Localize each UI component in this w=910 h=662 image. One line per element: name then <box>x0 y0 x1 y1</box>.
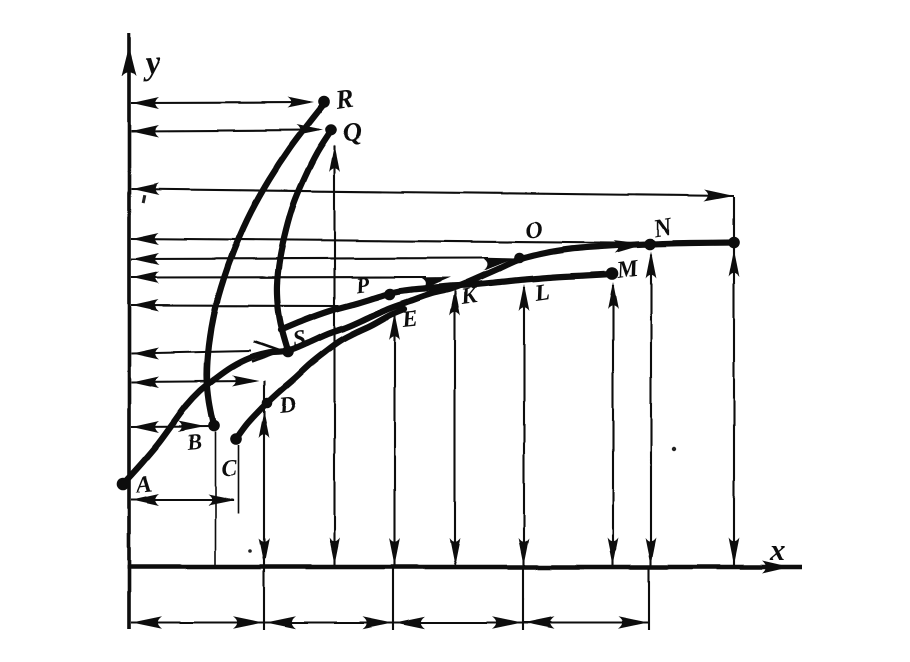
left arrowhead C dim <box>132 494 159 506</box>
left arrowhead N line <box>132 233 159 245</box>
ink speck right middle <box>672 447 676 451</box>
open arrowhead into S <box>252 342 281 363</box>
ink speck near axis top <box>141 195 146 203</box>
projection line for N <box>131 239 616 244</box>
svg-text:R: R <box>333 83 356 115</box>
extension below axis at L <box>522 567 524 630</box>
point dot R <box>318 96 330 108</box>
bottom dim right arrowhead at N extension <box>618 616 648 628</box>
y-axis arrowhead <box>122 46 137 76</box>
bottom dim left arrowhead from L extension <box>525 616 555 628</box>
svg-text:D: D <box>277 391 298 418</box>
ink speck above x-axis <box>248 549 252 553</box>
steep curve S-Q <box>277 131 331 351</box>
bottom dim left arrowhead at y-axis <box>132 616 162 628</box>
point dot Q <box>325 124 337 136</box>
bottom dimension line <box>131 622 649 624</box>
left arrowhead R line <box>132 97 159 109</box>
down arrowhead at axis under L <box>519 538 530 565</box>
vertical line at right end <box>733 197 735 567</box>
vertical line under M <box>612 285 614 567</box>
right arrowhead C dim <box>208 495 235 506</box>
svg-text:L: L <box>532 279 551 307</box>
svg-text:C: C <box>221 455 239 481</box>
projection line for K <box>131 276 426 279</box>
projection line for R <box>131 101 310 104</box>
point dot right end of curve <box>728 237 740 249</box>
left arrowhead K line <box>132 272 159 284</box>
down arrowhead at axis under M <box>608 538 619 565</box>
left arrowhead D line <box>132 376 159 388</box>
svg-text:M: M <box>614 255 641 284</box>
svg-text:P: P <box>353 271 371 298</box>
svg-text:O: O <box>523 217 544 245</box>
vertical line under D <box>263 381 265 567</box>
projection line for E <box>131 304 342 307</box>
right arrowhead D line <box>232 376 259 387</box>
extension below axis at D <box>263 567 265 630</box>
up arrowhead under N <box>646 251 657 278</box>
down arrowhead at axis under Q <box>329 538 340 565</box>
right arrowhead Q line <box>296 125 323 136</box>
left arrowhead S line <box>132 348 159 360</box>
arrowhead into K <box>420 277 451 289</box>
main curve A-S-E-K-O-N <box>123 243 734 485</box>
point dot N <box>644 238 656 250</box>
bottom dim left arrowhead from D extension <box>266 616 296 628</box>
point dot P <box>384 288 396 300</box>
vertical line under C <box>238 445 240 513</box>
svg-text:B: B <box>185 429 203 456</box>
y-axis <box>127 33 131 629</box>
vertical line under Q <box>333 146 335 567</box>
down arrowhead at axis right end <box>729 538 740 565</box>
vertical line under K <box>454 291 456 567</box>
svg-text:E: E <box>400 306 419 333</box>
vertical line under N <box>650 254 652 567</box>
up arrowhead under M <box>608 282 619 309</box>
left arrowhead B line <box>132 421 159 433</box>
svg-text:Q: Q <box>341 116 364 148</box>
svg-text:y: y <box>140 44 163 82</box>
point dot A <box>117 478 130 491</box>
right arrowhead long line <box>704 190 734 202</box>
left arrowhead E line <box>132 300 159 312</box>
point dot B <box>208 420 220 432</box>
up arrowhead under K <box>450 289 461 316</box>
point dot O <box>514 253 525 264</box>
dimension line for C abscissa <box>131 499 234 501</box>
bottom dim left arrowhead from E extension <box>395 616 425 628</box>
down arrowhead at axis under E <box>389 538 400 565</box>
up arrowhead under E <box>389 313 400 340</box>
svg-text:N: N <box>650 213 674 243</box>
top long dimension line <box>131 189 734 196</box>
vertical line under L <box>523 287 525 567</box>
down arrowhead at axis under D <box>259 538 270 565</box>
projection line for O <box>131 258 488 259</box>
bottom dim right arrowhead at L extension <box>492 616 522 628</box>
left arrowhead O line <box>132 253 159 265</box>
steep curve B-R <box>207 104 324 426</box>
x-axis <box>127 565 802 569</box>
vertical line under E <box>393 316 395 567</box>
up arrowhead under L <box>519 284 530 311</box>
point dot C <box>230 433 242 445</box>
dimension line for D abscissa <box>131 381 250 382</box>
up arrowhead under D <box>259 411 270 438</box>
svg-text:x: x <box>769 534 785 567</box>
point dot S <box>282 346 294 358</box>
bottom dim right arrowhead at E extension <box>362 616 392 628</box>
left arrowhead Q line <box>132 125 159 137</box>
extension below axis at E <box>392 567 394 630</box>
vertical line under B <box>215 432 217 567</box>
right arrowhead R line <box>287 97 314 108</box>
projection line for Q <box>131 130 319 131</box>
projection line for B <box>131 425 212 428</box>
up arrowhead at right end <box>729 250 740 277</box>
bottom dim right arrowhead at D extension <box>233 616 263 628</box>
point dot M <box>606 267 619 280</box>
left arrowhead long line <box>132 183 159 195</box>
down arrowhead at axis under N <box>646 538 657 565</box>
x-axis arrowhead <box>762 561 790 574</box>
point dot D <box>262 398 273 409</box>
extension below axis at N <box>648 567 650 630</box>
projection line for S <box>131 351 251 354</box>
svg-text:S: S <box>291 325 307 352</box>
arrowhead into O <box>481 258 514 271</box>
branch curve P-K-M <box>281 274 612 330</box>
up arrowhead under Q <box>329 145 340 172</box>
arrowhead into N <box>614 240 646 253</box>
arrowhead into B <box>178 421 205 432</box>
down arrowhead at axis under K <box>450 538 461 565</box>
svg-text:A: A <box>133 471 154 499</box>
curve C-D merging into main curve <box>236 309 404 439</box>
